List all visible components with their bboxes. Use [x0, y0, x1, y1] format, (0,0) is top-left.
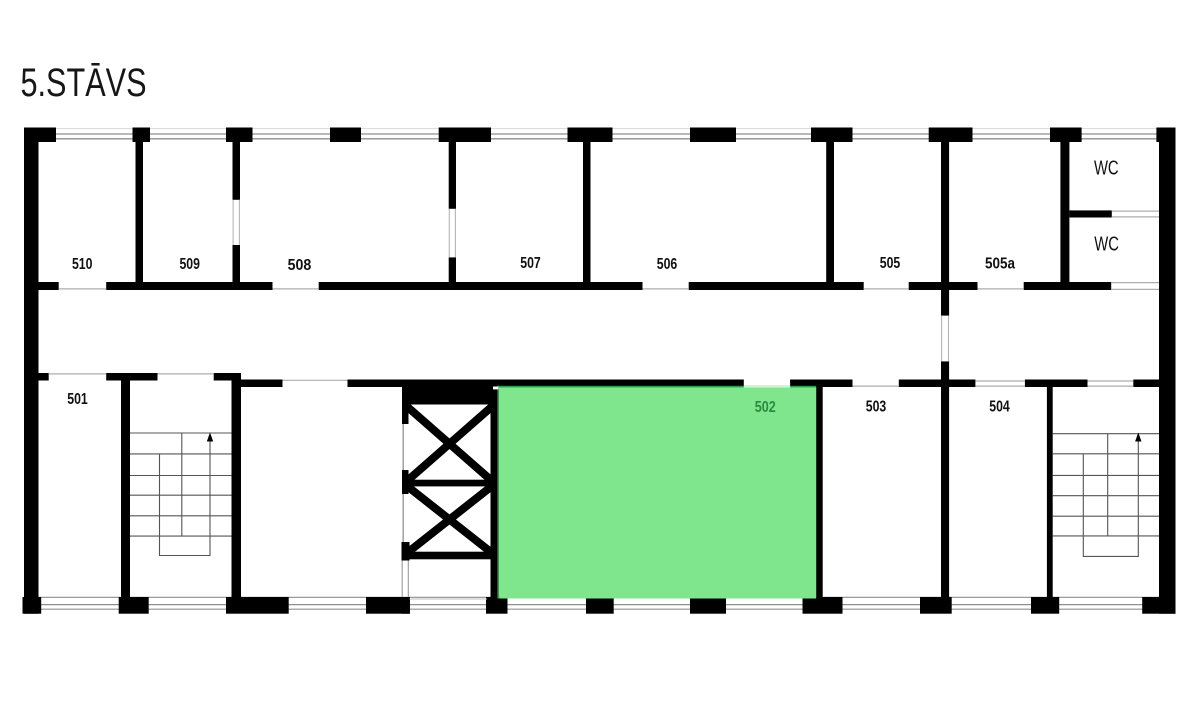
wall pier bottom facade #1 — [23, 597, 42, 614]
wall: building right outer — [1159, 128, 1176, 614]
door jamb lines wall 509|508 — [232, 200, 234, 245]
stair center line left — [181, 433, 183, 536]
wall pier top facade #4 — [330, 128, 361, 143]
wall pier bottom facade #5 — [486, 597, 508, 614]
elevator shaft left node middle — [402, 470, 409, 494]
wall 507|506 — [583, 142, 591, 290]
white notch at 502 top-left — [493, 387, 498, 390]
window glazing lines: bottom facade — [39, 596, 1160, 598]
elevator shaft bottom beam — [402, 552, 494, 560]
window lines WC2 to corridor — [1111, 282, 1159, 284]
svg-text:504: 504 — [989, 399, 1010, 416]
wall: corridor north segment #2 — [106, 282, 272, 290]
wall: corridor south-left segment #2 — [106, 373, 157, 381]
wall pier top facade #7 — [690, 128, 736, 143]
wall: corridor south-right segment #3 — [495, 380, 744, 388]
stair center line right — [1107, 434, 1109, 536]
elevator shaft top wall — [402, 380, 495, 405]
room 502 green fill — [499, 388, 816, 599]
elevator shaft left rail line — [402, 405, 404, 561]
door jamb lines wall 508|507 — [448, 209, 450, 258]
wall pier top facade #1 — [24, 128, 56, 143]
wall pier top facade #9 — [929, 128, 973, 143]
wall: corridor south-right segment #1 — [241, 380, 283, 388]
wall: corridor north segment #3 — [319, 282, 643, 290]
window glazing lines: top facade — [24, 128, 1176, 130]
stair flight outline left — [160, 440, 211, 556]
door/window thresholds south-right — [283, 379, 348, 381]
svg-text:510: 510 — [72, 256, 93, 273]
wall: corridor north segment #6 — [1024, 282, 1111, 290]
wall 505|505a continuing across corridor, upper — [941, 142, 949, 316]
wall pier bottom facade #7 — [690, 597, 726, 614]
svg-text:WC: WC — [1094, 158, 1119, 180]
wall: corridor south-right segment #2 — [348, 380, 403, 388]
wall 508|507 upper — [449, 142, 456, 209]
svg-text:505: 505 — [880, 255, 901, 272]
wall pier top facade #11 — [1156, 128, 1175, 143]
wall: corridor north segment #1 — [38, 282, 59, 290]
svg-text:505a: 505a — [985, 256, 1015, 273]
wall pier bottom facade #6 — [586, 597, 614, 614]
wall 504|stairwell-right — [1047, 387, 1053, 597]
wall: corridor south-right segment #7 — [1133, 380, 1159, 388]
wall: corridor south-left segment #1 — [38, 373, 49, 381]
wall: corridor south-right segment #4 — [790, 380, 852, 388]
elevator shaft left node bottom — [402, 542, 410, 561]
svg-text:501: 501 — [67, 391, 88, 408]
wall 502|503 (green right) — [816, 387, 823, 598]
mini pier below vestibule wall — [402, 597, 410, 614]
wall pier top facade #2 — [133, 128, 151, 143]
stair direction arrowhead left — [207, 433, 213, 442]
wall pier bottom facade #11 — [1142, 597, 1175, 614]
door threshold WC divider — [1112, 210, 1159, 212]
wall pier bottom facade #8 — [803, 597, 843, 614]
svg-text:508: 508 — [288, 257, 312, 274]
door jamb lines corridor crossing wall — [941, 316, 943, 362]
wall: corridor north segment #5 — [909, 282, 978, 290]
wall 510|509 — [136, 142, 144, 290]
svg-text:507: 507 — [520, 255, 541, 272]
wall pier bottom facade #2 — [119, 597, 149, 614]
wall: building left outer — [24, 128, 39, 614]
wall pier top facade #5 — [439, 128, 491, 143]
wall pier top facade #3 — [226, 128, 253, 143]
svg-text:WC: WC — [1094, 233, 1119, 255]
stair treads right stairwell — [1053, 433, 1159, 435]
stair direction arrowhead right — [1135, 433, 1141, 442]
wall WC1|WC2 — [1069, 210, 1111, 217]
wall pier bottom facade #10 — [1031, 597, 1059, 614]
wall 506|505 — [826, 142, 834, 290]
wall 509|508 lower — [233, 245, 241, 290]
door thresholds in corridor north wall — [59, 288, 106, 290]
pale strip in 502 door gap — [744, 386, 790, 388]
wall 501|stairwell-left — [121, 381, 130, 598]
wall: corridor north segment #4 — [689, 282, 864, 290]
stair flight outline right — [1083, 440, 1138, 556]
elevator shaft left node top — [402, 405, 409, 425]
elevator X-brace lower — [407, 486, 492, 553]
wall 509|508 upper — [233, 142, 241, 200]
elevator shaft middle beam — [409, 480, 493, 487]
wall pier bottom facade #9 — [920, 597, 952, 614]
door thresholds rooms 501 / stairwell — [49, 373, 106, 375]
svg-text:502: 502 — [755, 399, 776, 416]
wall pier top facade #8 — [811, 128, 853, 143]
elevator X-brace upper — [407, 407, 492, 482]
svg-text:506: 506 — [657, 256, 678, 273]
svg-text:503: 503 — [866, 399, 887, 416]
stair treads left stairwell — [130, 432, 232, 434]
wall: corridor south-right segment #6 — [1025, 380, 1088, 388]
wall: corridor south-right segment #5 — [899, 380, 976, 388]
wall pier bottom facade #4 — [366, 597, 410, 614]
wall pier top facade #6 — [568, 128, 613, 143]
wall 508|507 lower — [449, 257, 456, 290]
elevator shaft right wall — [491, 380, 498, 600]
room 502 dark green top border — [497, 386, 816, 388]
wall pier bottom facade #3 — [226, 597, 289, 614]
wall crossing corridor / 503|504, lower — [941, 361, 949, 597]
wall pier top facade #10 — [1050, 128, 1082, 143]
wall stairwell-left|middle room — [232, 373, 242, 597]
vestibule below shaft thin walls — [401, 561, 403, 598]
wall 505a|WC — [1060, 142, 1069, 290]
svg-text:509: 509 — [179, 256, 200, 273]
wall: corridor south-left segment #3 — [214, 373, 241, 381]
svg-text:5.STĀVS: 5.STĀVS — [21, 61, 147, 105]
room 502 dark green left border — [497, 386, 499, 599]
